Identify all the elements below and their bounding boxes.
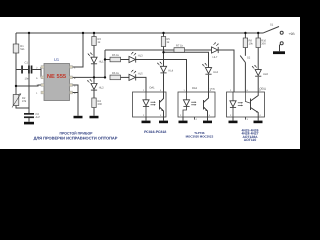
svg-text:C2: C2 xyxy=(36,113,39,116)
svg-text:2: 2 xyxy=(230,114,231,117)
svg-text:C1: C1 xyxy=(25,61,28,64)
label R3 xyxy=(98,38,101,44)
label R7 xyxy=(176,44,183,47)
ground under DA2 right xyxy=(203,121,212,124)
label S1 xyxy=(270,23,273,26)
ground under DA2 left xyxy=(179,121,188,124)
DA3 internal LED xyxy=(230,92,236,117)
wire R10 chain top xyxy=(257,33,259,38)
optocoupler box DA3 xyxy=(227,92,265,117)
label +9V xyxy=(289,32,295,36)
label DA1 xyxy=(150,86,155,89)
svg-text:+9В: +9В xyxy=(289,32,295,36)
svg-text:HL8: HL8 xyxy=(263,72,268,75)
LED HL7 xyxy=(212,43,219,54)
svg-text:2: 2 xyxy=(36,66,37,69)
svg-text:ПРОСТОЙ ПРИБОР: ПРОСТОЙ ПРИБОР xyxy=(60,131,93,135)
wire R2 bottom to C2 top xyxy=(16,106,29,109)
svg-text:R1: R1 xyxy=(20,45,23,48)
label HL8 xyxy=(263,72,268,75)
label R1 xyxy=(20,45,24,51)
label HL2 xyxy=(99,86,104,89)
label HL5 xyxy=(138,72,143,75)
svg-text:РС816-РС818: РС816-РС818 xyxy=(144,130,166,134)
svg-text:DA1: DA1 xyxy=(150,86,155,89)
switch S2 xyxy=(240,56,245,63)
wire pin 5 stub xyxy=(73,92,79,94)
label R8 xyxy=(249,39,253,45)
svg-text:6: 6 xyxy=(247,89,248,92)
svg-text:R10: R10 xyxy=(261,39,266,42)
wire pin 1 to ground xyxy=(73,85,79,116)
LED HL5 xyxy=(129,70,136,81)
ground under DA3 left xyxy=(229,121,238,124)
svg-text:HL6: HL6 xyxy=(213,70,218,73)
DA3 middle stub xyxy=(245,117,247,120)
svg-text:1: 1 xyxy=(184,89,185,92)
label TLP736 xyxy=(194,131,204,134)
wire C1 row middle xyxy=(23,69,28,71)
wire R3 chain top xyxy=(93,33,95,37)
wire C2 bottom to ground xyxy=(28,118,30,122)
wire node A to R2 xyxy=(15,86,17,95)
svg-text:10n: 10n xyxy=(25,77,29,80)
pin numbers U1 left xyxy=(36,66,37,69)
LED HL6 xyxy=(202,63,211,74)
wire R1 to node A xyxy=(15,53,17,86)
label HL1 xyxy=(99,60,104,63)
svg-text:R7 1k: R7 1k xyxy=(176,44,183,47)
svg-text:R5: R5 xyxy=(167,38,170,41)
wire HL8 to box3 collector xyxy=(257,77,259,92)
DA1 internal LED xyxy=(143,92,149,117)
wire F3 R6 to HL5 xyxy=(121,76,130,78)
title line 2 xyxy=(34,136,118,141)
wire HL2 to R4 xyxy=(93,90,95,98)
label S2 xyxy=(247,56,250,59)
svg-text:3: 3 xyxy=(74,84,75,87)
svg-text:ДЛЯ ПРОВЕРКИ ИСПРАВНОСТИ ОПТОП: ДЛЯ ПРОВЕРКИ ИСПРАВНОСТИ ОПТОПАР xyxy=(34,136,118,141)
label PC816 xyxy=(144,130,166,134)
label DA2 xyxy=(192,86,197,89)
junction dots xyxy=(15,32,260,87)
resistor R10 xyxy=(256,38,260,48)
wire F1 line left xyxy=(105,49,174,51)
ground under S1 xyxy=(273,51,285,54)
svg-text:1k: 1k xyxy=(98,41,101,44)
resistor R2 (variable) xyxy=(12,94,21,108)
DA3 bottom stubs xyxy=(233,117,258,121)
wire F2 HL3 to box2 anode xyxy=(136,60,187,93)
wire R1 top stub xyxy=(15,33,17,44)
DA2 light arrows xyxy=(191,101,196,105)
DA2 middle stub xyxy=(194,117,196,120)
label AOT xyxy=(244,138,257,142)
svg-text:S2: S2 xyxy=(247,56,250,59)
svg-text:5k1: 5k1 xyxy=(20,48,24,51)
wire HL1 to output node xyxy=(93,64,95,78)
svg-text:4u7: 4u7 xyxy=(36,116,40,119)
svg-text:6: 6 xyxy=(210,89,211,92)
wire top +9V rail xyxy=(16,32,264,34)
svg-text:1k: 1k xyxy=(167,41,170,44)
wire R10 to HL8 xyxy=(257,48,259,70)
svg-text:4: 4 xyxy=(196,118,197,121)
pin numbers DA1 xyxy=(143,89,144,92)
pin numbers DA2 xyxy=(184,89,185,92)
svg-text:4: 4 xyxy=(160,89,161,92)
pin numbers U1 right xyxy=(74,66,75,69)
wire R8 to switch S2 xyxy=(244,48,246,56)
ground under DA3 right xyxy=(254,121,263,124)
wire riser x105 xyxy=(104,50,106,77)
svg-text:TLP736: TLP736 xyxy=(194,131,204,134)
svg-text:6: 6 xyxy=(36,77,37,80)
label R5 xyxy=(112,54,119,57)
pin stubs U1 xyxy=(41,66,73,94)
svg-text:1: 1 xyxy=(230,89,231,92)
label MOC xyxy=(186,135,214,138)
op-amp U1 NE555 body xyxy=(44,64,70,101)
LED HL4 xyxy=(157,62,166,73)
resistor R7 (F1) xyxy=(174,48,185,53)
svg-text:5: 5 xyxy=(259,89,260,92)
svg-text:7: 7 xyxy=(36,84,37,87)
wire pin 8-4 to rail xyxy=(73,33,84,67)
resistor R5a x163 xyxy=(161,37,165,47)
wire R3 to HL1 xyxy=(93,46,95,58)
svg-text:R5 1k: R5 1k xyxy=(112,54,119,57)
svg-text:HL1: HL1 xyxy=(99,60,104,63)
wire F1 R7 to HL7 xyxy=(185,49,212,51)
label 4N28 xyxy=(241,132,258,136)
label DA3 xyxy=(260,87,266,90)
wire F2 R5 to HL3 xyxy=(121,59,130,61)
svg-text:300: 300 xyxy=(261,42,265,45)
wire output node to HL2 xyxy=(93,77,95,83)
svg-text:2: 2 xyxy=(180,114,181,117)
svg-text:NE 555: NE 555 xyxy=(47,73,66,80)
svg-text:3: 3 xyxy=(160,114,161,117)
DA2 internal LED xyxy=(183,92,190,117)
label HL3 xyxy=(138,54,143,57)
switch S1 xyxy=(264,27,284,52)
pin numbers DA3 xyxy=(230,89,231,92)
capacitor C2 electrolytic xyxy=(24,113,34,118)
DA1 phototransistor xyxy=(160,92,164,117)
svg-text:МОС3020 МОС3023: МОС3020 МОС3023 xyxy=(186,135,214,138)
DA2 bottom stubs xyxy=(183,117,208,121)
wire S2 to box3 base xyxy=(244,63,246,93)
label HL7 xyxy=(213,55,218,58)
wire R4 to ground xyxy=(93,108,95,116)
resistor R4 xyxy=(92,98,96,108)
label U1 xyxy=(54,57,59,62)
svg-text:DA2: DA2 xyxy=(192,86,197,89)
label HL6 xyxy=(213,70,218,73)
title line 1 xyxy=(60,131,93,135)
wire branch node to HL4 xyxy=(163,52,165,66)
wire R5a chain top xyxy=(163,33,165,37)
svg-text:U1: U1 xyxy=(54,57,59,62)
svg-text:HL4: HL4 xyxy=(168,69,173,72)
svg-text:8: 8 xyxy=(74,77,75,80)
resistor R8 xyxy=(243,38,247,48)
svg-text:1: 1 xyxy=(143,89,144,92)
label R5a xyxy=(167,38,170,44)
svg-text:3: 3 xyxy=(247,118,248,121)
svg-text:R6 1k: R6 1k xyxy=(112,72,119,75)
wire C1 row left xyxy=(16,69,21,71)
label 4N25 xyxy=(241,128,258,132)
DA2 phototransistor xyxy=(204,92,209,117)
LED HL2 xyxy=(87,79,97,90)
svg-text:S1: S1 xyxy=(270,23,273,26)
label C1 xyxy=(25,61,28,64)
ground under DA1 left xyxy=(142,121,151,124)
bottom letterbox bar xyxy=(0,149,300,168)
svg-text:HL5: HL5 xyxy=(138,72,143,75)
tiny component labels xyxy=(20,23,294,120)
label C2 xyxy=(36,113,40,119)
ground under DA1 right xyxy=(159,121,168,124)
ground under R4 xyxy=(90,116,99,119)
svg-text:4: 4 xyxy=(74,66,75,69)
svg-text:АОТ110: АОТ110 xyxy=(244,138,257,142)
wire rail drop to C1/C2 column xyxy=(28,33,30,113)
label R4 xyxy=(98,100,102,106)
wire pin 3 output xyxy=(73,76,106,78)
LED HL8 xyxy=(252,65,261,76)
wire C1 row to pins 6-2 xyxy=(32,67,44,77)
wire HL6 to box2 collector xyxy=(208,75,210,92)
optocoupler box DA1 xyxy=(133,92,167,117)
label C1 value xyxy=(25,77,29,80)
svg-text:5: 5 xyxy=(74,92,75,95)
wire F2 line left xyxy=(105,59,110,61)
resistor R1 xyxy=(13,44,19,53)
DA3 light arrows xyxy=(238,102,243,106)
DA3 phototransistor with base xyxy=(245,92,258,117)
svg-text:5: 5 xyxy=(209,114,210,117)
label R10 xyxy=(261,39,266,45)
label R6 xyxy=(112,72,119,75)
svg-text:47k: 47k xyxy=(22,100,26,103)
svg-text:2: 2 xyxy=(143,114,144,117)
wire R8 chain top xyxy=(244,33,246,38)
svg-text:300: 300 xyxy=(98,103,102,106)
svg-text:4: 4 xyxy=(259,114,260,117)
LED HL1 xyxy=(88,53,97,64)
label R2 xyxy=(22,97,26,103)
optocoupler box DA2 xyxy=(178,92,215,117)
label NE 555 xyxy=(47,73,66,80)
wire node A to pin 7 xyxy=(16,85,44,86)
label 4N35 xyxy=(242,135,257,139)
wire F1 HL7 to box3 anode xyxy=(219,50,234,92)
svg-text:10k: 10k xyxy=(249,42,253,45)
label HL4 xyxy=(168,69,173,72)
blue part labels under boxes xyxy=(34,128,259,142)
svg-text:HL3: HL3 xyxy=(138,54,143,57)
ground under C2 xyxy=(24,122,34,125)
svg-text:R4: R4 xyxy=(98,100,101,103)
wire R5a to branch node xyxy=(163,47,165,53)
DA1 bottom stubs xyxy=(146,117,164,121)
resistor R3 xyxy=(92,37,96,46)
svg-text:HL7: HL7 xyxy=(213,55,218,58)
DA1 light arrows xyxy=(151,101,156,105)
resistor R6 (F3) xyxy=(110,75,121,80)
ground under IC pin1 xyxy=(74,116,83,119)
top letterbox bar xyxy=(0,0,300,17)
wire branch line to HL6 xyxy=(164,52,209,67)
wire F3 HL5 to box1 anode xyxy=(136,77,146,92)
svg-text:HL2: HL2 xyxy=(99,86,104,89)
wire HL4 to box1 collector xyxy=(163,73,165,92)
svg-text:R2: R2 xyxy=(22,97,25,100)
capacitor C1 (three plates) xyxy=(21,66,32,74)
LED HL3 xyxy=(129,52,136,63)
resistor R5 (F2) xyxy=(110,57,121,62)
svg-text:R8: R8 xyxy=(249,39,252,42)
svg-text:R3: R3 xyxy=(98,38,101,41)
svg-text:1: 1 xyxy=(36,92,37,95)
